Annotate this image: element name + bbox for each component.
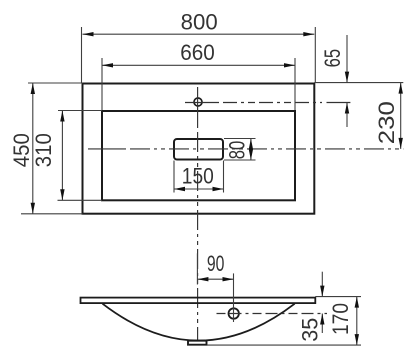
faucet hole centerline <box>185 102 212 104</box>
svg-text:150: 150 <box>182 164 214 189</box>
bowl curve <box>103 304 295 341</box>
dim 65 <box>314 35 403 127</box>
svg-text:65: 65 <box>320 49 345 68</box>
dim 170 <box>208 297 362 346</box>
dim 90 <box>197 251 233 322</box>
dim 80 <box>224 139 256 161</box>
svg-text:35: 35 <box>297 318 322 342</box>
dim 800 <box>82 10 316 84</box>
horizontal centerline top view <box>88 148 122 150</box>
svg-text:660: 660 <box>180 40 215 65</box>
dim 310 <box>31 111 102 201</box>
dim 230 <box>374 83 403 149</box>
dim 150 <box>174 161 224 193</box>
drain rect (top view) <box>174 139 223 160</box>
inner rect (basin inner bowl, top view) <box>102 111 295 200</box>
drain flange bottom view <box>188 341 207 345</box>
faucet hole <box>194 98 202 106</box>
svg-text:230: 230 <box>374 101 399 144</box>
svg-text:170: 170 <box>328 303 353 335</box>
svg-text:310: 310 <box>31 133 56 167</box>
dim 660 <box>102 40 295 110</box>
outer rect (basin outline, top view) <box>83 84 315 214</box>
vertical centerline <box>197 87 199 124</box>
svg-text:80: 80 <box>224 141 249 160</box>
dim 35 <box>297 272 361 342</box>
bottom view plate <box>81 298 316 304</box>
overflow centerline <box>217 313 328 315</box>
dim 450 <box>9 83 83 214</box>
overflow hole <box>229 308 239 318</box>
svg-text:800: 800 <box>181 10 218 35</box>
svg-text:90: 90 <box>207 251 225 276</box>
